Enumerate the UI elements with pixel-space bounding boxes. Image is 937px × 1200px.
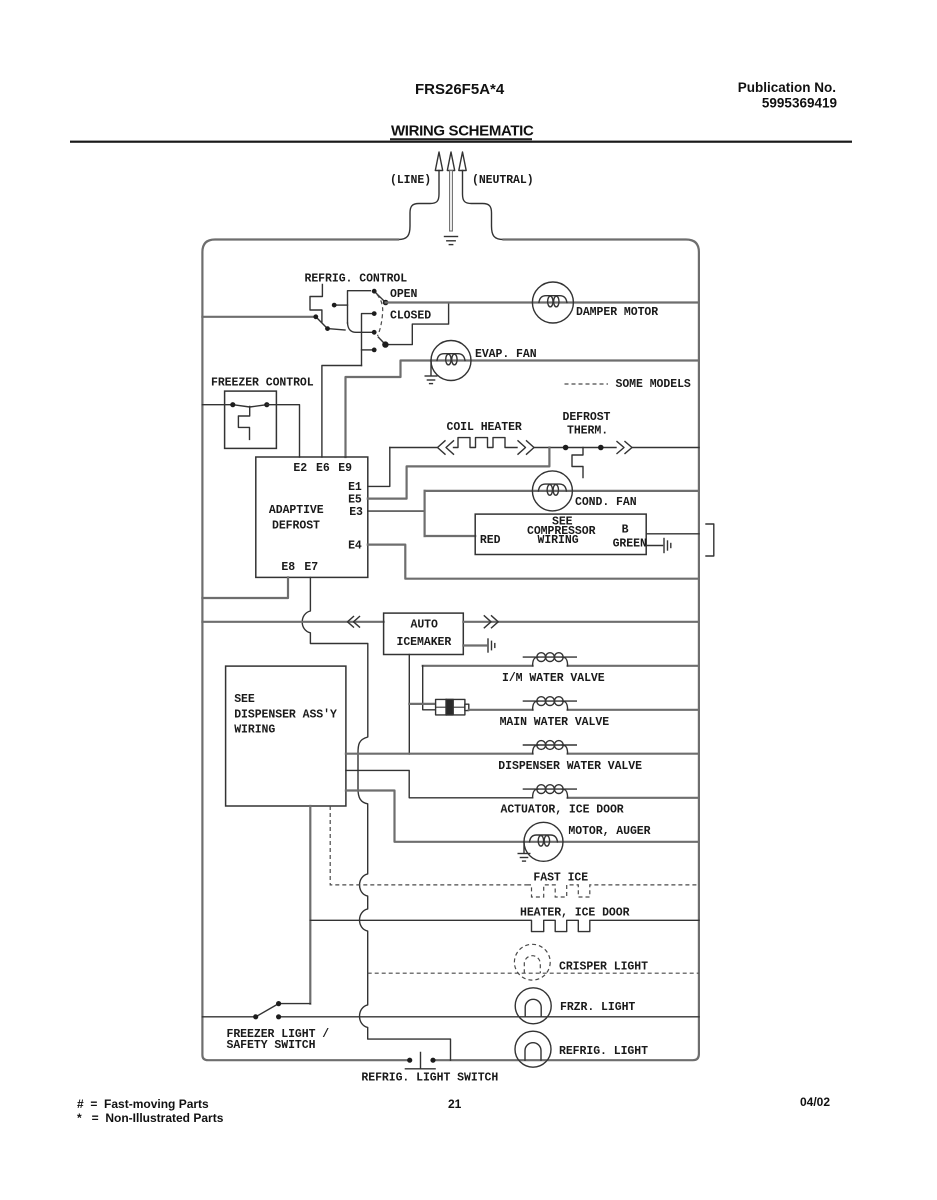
wire closed-position output staircase to damper wire — [385, 303, 448, 345]
solenoid coil L2 main water valve — [523, 697, 576, 710]
wire icemaker bottom feed — [408, 655, 410, 755]
svg-text:E3: E3 — [349, 506, 363, 519]
svg-text:SEE: SEE — [234, 693, 255, 706]
svg-text:E7: E7 — [304, 561, 318, 574]
evap fan coil — [437, 354, 465, 361]
top right bus and neutral right edge — [433, 240, 699, 1061]
svg-text:DEFROST: DEFROST — [272, 520, 320, 533]
horizontal rule — [70, 141, 852, 143]
cond fan coil — [538, 484, 566, 491]
wire evap fan feed to E9 — [346, 361, 432, 458]
svg-text:21: 21 — [448, 1097, 462, 1111]
svg-text:FRZR. LIGHT: FRZR. LIGHT — [560, 1001, 635, 1014]
svg-text:FRS26F5A*4: FRS26F5A*4 — [415, 81, 505, 98]
defrost thermostat squiggle — [572, 448, 583, 478]
wire ground prong shaft — [450, 171, 453, 232]
frzr light LP2 circle — [515, 988, 551, 1024]
wire actuator row right — [568, 797, 699, 799]
safety switch contact dots — [253, 1014, 258, 1019]
connector chevrons right of icemaker — [484, 616, 498, 628]
refrig light switch plunger — [405, 1053, 435, 1069]
wire left bus to freezer control — [202, 404, 232, 406]
wire E5 to heater line — [368, 448, 550, 499]
auger motor coil — [530, 835, 558, 842]
wire icemaker feed to device upper lead — [409, 703, 435, 705]
crisper light filament dashed — [524, 956, 540, 974]
compressor wiring box — [475, 514, 646, 554]
wire E8 to left bus — [202, 577, 288, 598]
svg-text:# = Fast-moving Parts: # = Fast-moving Parts — [77, 1097, 209, 1111]
freezer control thermostat squiggle — [238, 407, 249, 440]
svg-text:REFRIG. LIGHT SWITCH: REFRIG. LIGHT SWITCH — [361, 1072, 498, 1085]
cond fan motor M3 circle — [532, 471, 572, 511]
wire damper motor row — [386, 301, 699, 303]
heading underline — [390, 138, 532, 140]
refrig control staircase lead — [310, 285, 322, 323]
auger motor M4 circle — [524, 822, 563, 861]
I/M valve vertical link — [423, 666, 436, 710]
svg-text:DISPENSER WATER VALVE: DISPENSER WATER VALVE — [498, 760, 642, 773]
svg-text:THERM.: THERM. — [567, 425, 608, 438]
node: wire left bus to refrig control — [202, 316, 315, 318]
ground sideways at icemaker — [488, 639, 495, 652]
wire dispenser water valve row — [346, 753, 699, 755]
svg-text:DEFROST: DEFROST — [563, 411, 611, 424]
wire left bus to safety switch — [202, 1016, 255, 1018]
svg-text:B: B — [622, 524, 629, 537]
svg-text:DAMPER MOTOR: DAMPER MOTOR — [576, 306, 658, 319]
svg-text:REFRIG. LIGHT: REFRIG. LIGHT — [559, 1045, 648, 1058]
refrig control bottom contact stub — [362, 349, 375, 351]
wire I/M water valve row — [423, 665, 699, 667]
svg-text:WIRING SCHEMATIC: WIRING SCHEMATIC — [391, 123, 534, 140]
main box outline: line bus left edge + top edge + neutral right edge + bottom edge — [202, 240, 409, 1061]
adaptive defrost box U1 — [256, 457, 368, 577]
refrig light filament — [525, 1043, 541, 1061]
wire auger row right — [524, 841, 699, 843]
refrig control body outline — [348, 291, 371, 323]
freezer control contact dots — [230, 402, 235, 407]
wire icemaker row right — [463, 621, 699, 623]
svg-text:REFRIG. CONTROL: REFRIG. CONTROL — [305, 273, 408, 286]
refrig control body hook to contact — [348, 323, 375, 332]
svg-text:COIL HEATER: COIL HEATER — [447, 421, 522, 434]
connector chevrons right on heater line — [518, 441, 534, 454]
ground at evap fan — [425, 361, 437, 384]
svg-text:AUTO: AUTO — [411, 619, 439, 632]
svg-text:Publication No.: Publication No. — [738, 80, 836, 95]
svg-text:E6: E6 — [316, 462, 330, 475]
svg-text:HEATER, ICE DOOR: HEATER, ICE DOOR — [520, 906, 630, 919]
svg-text:5995369419: 5995369419 — [762, 96, 837, 111]
connector chevrons left on heater line — [438, 441, 454, 454]
svg-text:DISPENSER ASS'Y: DISPENSER ASS'Y — [234, 709, 337, 722]
svg-text:RED: RED — [480, 534, 501, 547]
svg-text:EVAP. FAN: EVAP. FAN — [475, 348, 537, 361]
svg-text:(LINE): (LINE) — [390, 174, 431, 187]
svg-text:GREEN: GREEN — [613, 538, 647, 551]
inline fuse device main water valve — [436, 699, 469, 715]
plug prong arrow NEUTRAL — [459, 152, 466, 171]
wire evap fan row right — [431, 359, 699, 361]
refrig control CLOSED stub — [362, 314, 375, 366]
node vertical cond fan / red — [424, 491, 426, 536]
refrig control stub contact — [334, 304, 347, 306]
ground sideways at GREEN — [664, 539, 671, 553]
dispenser assy wiring box — [226, 666, 346, 806]
ground at auger motor — [518, 842, 530, 861]
wire B terminal to right bus — [646, 533, 699, 535]
svg-text:(NEUTRAL): (NEUTRAL) — [472, 174, 534, 187]
coil heater line left — [390, 447, 437, 449]
solenoid coil L3 dispenser water valve — [523, 741, 576, 754]
wire cond fan row — [425, 490, 699, 492]
wire crisper light row dashed — [368, 972, 699, 974]
coil heater element bumps — [454, 438, 518, 448]
freezer control box — [225, 391, 277, 448]
svg-text:SOME MODELS: SOME MODELS — [616, 378, 691, 391]
wire dispenser box bottom dashed channel — [330, 806, 527, 885]
solenoid coil L4 actuator ice door — [523, 785, 576, 798]
svg-text:OPEN: OPEN — [390, 288, 418, 301]
wire freezer control to E2 — [267, 405, 300, 457]
damper motor coil — [539, 296, 567, 303]
svg-text:FREEZER CONTROL: FREEZER CONTROL — [211, 376, 314, 389]
refrig control dashed arc — [377, 295, 383, 337]
svg-text:E9: E9 — [338, 462, 352, 475]
svg-text:WIRING: WIRING — [538, 534, 579, 547]
wire E1 to coil heater line — [368, 448, 390, 487]
svg-text:* = Non-Illustrated Parts: * = Non-Illustrated Parts — [77, 1111, 224, 1125]
heater line to defrost thermostat — [534, 447, 616, 449]
svg-text:COND. FAN: COND. FAN — [575, 496, 637, 509]
refrig control lower diagonal — [378, 337, 385, 345]
freezer control blade — [233, 405, 267, 407]
svg-text:SAFETY SWITCH: SAFETY SWITCH — [227, 1039, 316, 1052]
svg-text:E1: E1 — [348, 481, 362, 494]
svg-text:E5: E5 — [348, 494, 362, 507]
svg-text:E8: E8 — [281, 561, 295, 574]
defrost thermostat node dot 2 — [598, 445, 604, 451]
defrost thermostat node dot 1 — [563, 445, 569, 451]
wire dispenser box bottom solid channel — [309, 806, 311, 1004]
damper motor M1 circle — [532, 282, 573, 323]
refrig control contact dots — [313, 314, 318, 319]
wire icemaker ground stub — [463, 644, 486, 646]
auto icemaker box — [384, 613, 464, 654]
svg-text:04/02: 04/02 — [800, 1095, 830, 1109]
wire E4 to right bus — [368, 545, 699, 579]
wire neutral prong to top bus — [463, 171, 504, 240]
svg-text:I/M WATER VALVE: I/M WATER VALVE — [502, 672, 605, 685]
svg-text:E2: E2 — [293, 462, 307, 475]
wire switch to E6 — [322, 366, 362, 458]
wire freezer light row — [279, 1016, 699, 1018]
evap fan motor M2 circle — [431, 341, 471, 381]
wire RED to compressor box — [425, 535, 476, 537]
svg-text:CRISPER LIGHT: CRISPER LIGHT — [559, 961, 648, 974]
heater line to right bus — [632, 447, 699, 449]
svg-text:MOTOR, AUGER: MOTOR, AUGER — [568, 825, 650, 838]
svg-text:ACTUATOR, ICE DOOR: ACTUATOR, ICE DOOR — [501, 804, 624, 817]
svg-text:FAST ICE: FAST ICE — [533, 872, 588, 885]
fast ice heater element dashed bumps — [527, 885, 699, 897]
wire actuator feed from dispenser box — [346, 770, 533, 797]
wire auger feed from dispenser box — [346, 791, 524, 842]
crisper light LP1 circle dashed — [514, 944, 550, 980]
connector chevrons left of icemaker — [348, 617, 360, 628]
svg-text:MAIN WATER VALVE: MAIN WATER VALVE — [500, 716, 610, 729]
wire GREEN to ground — [646, 545, 662, 547]
svg-text:WIRING: WIRING — [234, 724, 275, 737]
wire heater ice door row with element bumps — [310, 920, 699, 931]
frzr light filament — [525, 999, 541, 1017]
plug prong arrow middle ground — [447, 152, 454, 171]
refrig control blade — [316, 317, 345, 330]
wire icemaker row left — [202, 621, 383, 623]
svg-text:ADAPTIVE: ADAPTIVE — [269, 504, 324, 517]
wire E7 channel with hop over icemaker wire — [302, 577, 450, 1060]
connector chevrons right 2 — [617, 442, 632, 454]
svg-text:E4: E4 — [348, 540, 362, 553]
legend dashes SOME MODELS — [565, 383, 609, 385]
plug prong arrow LINE — [435, 152, 442, 171]
safety switch blade — [256, 1004, 311, 1017]
ground symbol below plug — [445, 237, 458, 245]
refrig control wiper to OPEN — [374, 291, 385, 302]
solenoid coil L1 I/M water valve — [523, 653, 576, 666]
wire main water valve row — [469, 709, 699, 711]
svg-text:CLOSED: CLOSED — [390, 310, 431, 323]
connector bracket outside right bus — [706, 524, 714, 556]
wire E3 to cond fan node — [368, 510, 425, 512]
svg-text:ICEMAKER: ICEMAKER — [397, 636, 452, 649]
refrig light LP3 circle — [515, 1031, 551, 1067]
wire line prong to top bus — [398, 171, 439, 240]
refrig light switch contact dots — [407, 1058, 412, 1063]
